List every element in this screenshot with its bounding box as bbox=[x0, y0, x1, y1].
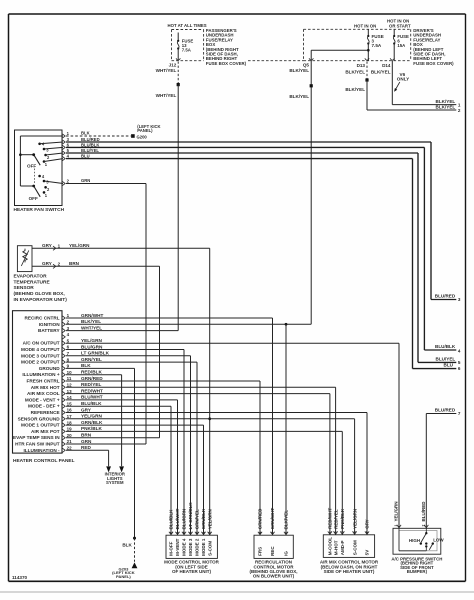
driver underdash fuse/relay box (dashed) bbox=[304, 29, 411, 60]
svg-text:BLU/YEL: BLU/YEL bbox=[81, 148, 99, 153]
wire BLK/YEL from Q5 to heater control panel pin 2 bbox=[289, 50, 312, 324]
evaporator sensor caption bbox=[14, 274, 68, 303]
svg-text:WHT/YEL: WHT/YEL bbox=[81, 325, 102, 330]
wire: panel pin 5 YEL/GRN (node A/C ON OUTPUT) bbox=[23, 338, 399, 528]
svg-text:FUSE BOX COVER): FUSE BOX COVER) bbox=[413, 61, 454, 66]
svg-text:4: 4 bbox=[258, 532, 262, 534]
svg-text:GRN/YEL: GRN/YEL bbox=[81, 357, 102, 362]
mode motor pin M-VENT (BLU/WHT) bbox=[175, 508, 180, 556]
svg-text:PANEL): PANEL) bbox=[116, 574, 131, 579]
svg-text:BLK: BLK bbox=[81, 131, 90, 136]
svg-text:IN EVAPORATOR UNIT): IN EVAPORATOR UNIT) bbox=[14, 297, 68, 303]
svg-text:BLU/BLK: BLU/BLK bbox=[81, 401, 102, 406]
svg-text:3: 3 bbox=[208, 532, 212, 534]
svg-text:RED/WHT: RED/WHT bbox=[81, 388, 103, 393]
svg-text:22: 22 bbox=[67, 446, 73, 451]
recirculation control motor caption bbox=[249, 560, 297, 579]
wire: panel pin 2 BLK/YEL (node IGNITION) bbox=[39, 319, 311, 535]
svg-text:GRN/YEL: GRN/YEL bbox=[195, 509, 200, 529]
svg-text:ON BLOWER UNIT): ON BLOWER UNIT) bbox=[253, 574, 295, 579]
svg-text:BLK/YEL: BLK/YEL bbox=[284, 510, 289, 530]
svg-text:YEL/GRN: YEL/GRN bbox=[81, 338, 102, 343]
interior lights system arrows caption bbox=[105, 472, 125, 485]
a/c pressure switch pin 2 BLU/RED entry bbox=[421, 501, 429, 528]
node: S-COM junction on row 17 bbox=[208, 417, 211, 420]
wire: panel pin 6 BLU/GRN (node MODE 4 OUTPUT) bbox=[21, 344, 184, 535]
svg-text:MODE 4 OUTPUT: MODE 4 OUTPUT bbox=[21, 347, 60, 352]
connector D13 bbox=[357, 58, 370, 68]
svg-text:G200: G200 bbox=[137, 134, 148, 139]
svg-text:18: 18 bbox=[67, 420, 73, 425]
svg-text:21: 21 bbox=[67, 439, 73, 444]
svg-text:ILLUMINATION +: ILLUMINATION + bbox=[22, 372, 60, 377]
svg-text:MODE - DEF +: MODE - DEF + bbox=[28, 404, 60, 409]
fuse 3 7.5A bbox=[367, 29, 384, 60]
wire: panel pin 12 RED/YEL (node AIR MIX HOT) bbox=[31, 382, 336, 535]
mode motor pin M-OFF (BLU/BLK) bbox=[169, 509, 174, 556]
fan switch upper deck wiper bbox=[27, 153, 40, 168]
svg-text:BLU/BLK: BLU/BLK bbox=[81, 142, 99, 147]
svg-text:4: 4 bbox=[202, 532, 206, 534]
label HOT IN ON bbox=[354, 23, 376, 28]
fan switch pin 1 BLK wire to ground G200 (dashed) bbox=[20, 131, 130, 138]
svg-text:BLK: BLK bbox=[81, 363, 91, 368]
fan switch gang link (dashed) bbox=[34, 169, 36, 185]
svg-text:YEL/GRN: YEL/GRN bbox=[352, 509, 357, 529]
wire: panel pin 10 RED/BLK (node ILLUMINATION +) bbox=[22, 370, 124, 473]
connector D14 bbox=[382, 58, 394, 68]
wire BLU fan switch pin 4 to right edge pin 6 bbox=[44, 154, 461, 372]
air mix motor pin 5V (GRY) bbox=[365, 519, 370, 555]
wire: panel pin 3 WHT/YEL (node BATTERY) bbox=[38, 325, 178, 333]
svg-text:HEATER FAN SWITCH: HEATER FAN SWITCH bbox=[14, 207, 65, 213]
svg-text:2: 2 bbox=[334, 531, 338, 533]
driver fuse box caption bbox=[413, 28, 454, 66]
wire: panel pin 19 PNK/BLK (node AIR MIX POT) bbox=[31, 426, 342, 535]
svg-text:19: 19 bbox=[67, 427, 73, 432]
svg-text:5: 5 bbox=[195, 532, 199, 534]
svg-text:BLU/RED: BLU/RED bbox=[435, 407, 456, 412]
wire: panel pin 21 GRN (node HTR FAN SW INPUT) bbox=[15, 439, 146, 447]
svg-text:2: 2 bbox=[169, 532, 173, 534]
svg-text:BUMPER): BUMPER) bbox=[407, 569, 428, 574]
svg-text:FRESH CNTRL: FRESH CNTRL bbox=[27, 379, 60, 384]
svg-text:GRY: GRY bbox=[42, 261, 52, 266]
svg-text:GRN/RED: GRN/RED bbox=[81, 376, 103, 381]
svg-text:M-COOL: M-COOL bbox=[328, 537, 333, 555]
svg-text:GROUND: GROUND bbox=[39, 366, 60, 371]
node: fuse 3 branch junction bbox=[367, 49, 370, 52]
svg-text:7: 7 bbox=[271, 532, 275, 534]
wire: panel pin 13 RED/WHT (node AIR MIX COOL) bbox=[27, 388, 330, 534]
wire: panel pin 7 LT GRN/BLK (node MODE 3 OUTPUT) bbox=[21, 351, 190, 536]
svg-text:YEL/GRN: YEL/GRN bbox=[81, 414, 102, 419]
mode control motor box bbox=[166, 535, 217, 558]
wire BLK/YEL from D13 to right edge pin 2 bbox=[345, 62, 461, 113]
wire GRN fan switch pin 2 to heater control panel pin 21 bbox=[44, 178, 146, 444]
mode motor pin MODE 4 (BLU/GRN) bbox=[182, 509, 187, 556]
svg-text:REFERENCE: REFERENCE bbox=[31, 410, 60, 415]
wire BLU/RED a/c pressure switch pin 2 to right edge pin 7 bbox=[426, 407, 461, 528]
svg-text:BLK/YEL: BLK/YEL bbox=[289, 94, 309, 99]
svg-text:GRN/RED: GRN/RED bbox=[258, 508, 263, 530]
wire: panel pin 15 BLU/BLK (node MODE - DEF +) bbox=[28, 401, 171, 535]
svg-text:RECIRC CNTRL: RECIRC CNTRL bbox=[24, 316, 59, 321]
svg-text:7: 7 bbox=[182, 532, 186, 534]
svg-text:4: 4 bbox=[458, 348, 461, 353]
svg-text:D13: D13 bbox=[357, 63, 366, 68]
svg-text:MODE - VENT +: MODE - VENT + bbox=[25, 397, 60, 402]
svg-text:TEMPERATURE: TEMPERATURE bbox=[14, 279, 51, 285]
ground G200 bbox=[131, 124, 160, 140]
svg-text:1: 1 bbox=[176, 532, 180, 534]
svg-text:BLU/GRN: BLU/GRN bbox=[182, 509, 187, 530]
note V6 ONLY with arrow to D14 wire bbox=[394, 72, 409, 92]
svg-text:BLU/WHT: BLU/WHT bbox=[175, 508, 180, 529]
passenger underdash fuse/relay box (dashed) bbox=[172, 30, 304, 61]
svg-text:11: 11 bbox=[67, 376, 72, 381]
svg-text:A/C ON OUTPUT: A/C ON OUTPUT bbox=[23, 341, 60, 346]
svg-text:BLK/YEL: BLK/YEL bbox=[289, 68, 309, 73]
svg-text:MODE 3: MODE 3 bbox=[188, 538, 193, 556]
svg-text:BLU/BLK: BLU/BLK bbox=[435, 344, 456, 349]
mode motor pin S-COM (YEL/GRN) bbox=[207, 509, 212, 556]
svg-text:ONLY: ONLY bbox=[397, 77, 409, 82]
mode motor pin MODE 2 (GRN/YEL) bbox=[195, 509, 200, 556]
svg-text:MODE 3 OUTPUT: MODE 3 OUTPUT bbox=[21, 353, 60, 358]
wire: panel pin 16 GRY (node REFERENCE) bbox=[31, 407, 367, 535]
svg-text:SIDE OF HEATER UNIT): SIDE OF HEATER UNIT) bbox=[324, 569, 375, 574]
svg-text:D14: D14 bbox=[382, 63, 391, 68]
svg-text:7.5A: 7.5A bbox=[372, 43, 382, 48]
heater control panel caption bbox=[13, 458, 75, 464]
svg-text:RED/YEL: RED/YEL bbox=[81, 382, 101, 387]
svg-text:LOW: LOW bbox=[433, 538, 444, 543]
svg-text:HTR FAN SW INPUT: HTR FAN SW INPUT bbox=[15, 442, 60, 447]
svg-text:BLK/YEL: BLK/YEL bbox=[345, 87, 365, 92]
svg-text:BRN: BRN bbox=[69, 261, 80, 266]
svg-text:RED/WHT: RED/WHT bbox=[328, 508, 333, 529]
svg-text:AIR MIX COOL: AIR MIX COOL bbox=[27, 391, 60, 396]
fuse 13 7.5A bbox=[177, 33, 193, 61]
svg-text:5V: 5V bbox=[365, 550, 370, 556]
connector J12 bbox=[169, 58, 181, 67]
wire: panel pin 11 GRN/RED (node FRESH CNTRL) bbox=[27, 376, 260, 535]
svg-text:PNK/BLK: PNK/BLK bbox=[340, 508, 345, 529]
mode motor pin MODE 3 (LT GRN/BLK) bbox=[188, 502, 193, 556]
wire: panel pin 9 BLK (node GROUND) bbox=[39, 363, 135, 538]
svg-text:10: 10 bbox=[67, 370, 73, 375]
svg-text:S-COM: S-COM bbox=[207, 541, 212, 556]
svg-text:OFF: OFF bbox=[29, 196, 38, 201]
svg-text:BLU/WHT: BLU/WHT bbox=[81, 395, 103, 400]
svg-text:M-OFF: M-OFF bbox=[169, 541, 174, 555]
wire: panel pin 17 YEL/GRN (node SENSOR GROUND) bbox=[18, 414, 355, 535]
passenger fuse box caption bbox=[206, 28, 247, 66]
svg-text:2: 2 bbox=[458, 108, 461, 113]
svg-text:BRN: BRN bbox=[81, 433, 92, 438]
svg-text:EVAP TEMP SENS IN: EVAP TEMP SENS IN bbox=[13, 435, 60, 440]
svg-text:RED/BLK: RED/BLK bbox=[81, 370, 102, 375]
svg-text:GRY: GRY bbox=[365, 519, 370, 529]
svg-text:MODE 1 OUTPUT: MODE 1 OUTPUT bbox=[21, 423, 60, 428]
mode control motor caption bbox=[164, 560, 220, 574]
heater control panel box bbox=[13, 311, 63, 453]
svg-text:7: 7 bbox=[458, 411, 461, 416]
heater control panel pin 4 (unused) bbox=[62, 332, 69, 339]
fuse 6 15A bbox=[393, 29, 409, 60]
svg-text:15: 15 bbox=[67, 401, 73, 406]
wire: panel pin 22 RED (node ILLUMINATION -) bbox=[23, 445, 111, 472]
svg-text:OF HEATER UNIT): OF HEATER UNIT) bbox=[172, 569, 211, 574]
heater fan switch caption bbox=[14, 207, 65, 213]
recirculation control motor box bbox=[254, 535, 293, 558]
svg-text:7.5A: 7.5A bbox=[182, 48, 191, 53]
svg-text:WHT/YEL: WHT/YEL bbox=[156, 68, 177, 73]
svg-text:AIR MIX HOT: AIR MIX HOT bbox=[31, 385, 60, 390]
svg-text:BLK/YEL: BLK/YEL bbox=[345, 70, 365, 75]
wire YEL/GRN evap sensor pin 1 to S-COM vertical bbox=[32, 243, 210, 535]
svg-text:BATTERY: BATTERY bbox=[38, 328, 60, 333]
svg-text:MODE 2 OUTPUT: MODE 2 OUTPUT bbox=[21, 360, 60, 365]
svg-text:LT GRN/BLK: LT GRN/BLK bbox=[81, 351, 110, 356]
svg-text:BLK/YEL: BLK/YEL bbox=[436, 99, 456, 104]
svg-text:BLU/RED: BLU/RED bbox=[421, 501, 426, 522]
fan switch upper contacts 4 3 2 1 bbox=[38, 142, 50, 168]
recirculation motor pin REC (GRN/WHT) bbox=[270, 508, 275, 556]
svg-text:20: 20 bbox=[67, 433, 73, 438]
wire: panel pin 20 BRN (node EVAP TEMP SENS IN) bbox=[13, 433, 160, 441]
svg-text:BLU/YEL: BLU/YEL bbox=[436, 356, 456, 361]
wire BLU/BLK fan switch pin 6 to right edge pin 4 bbox=[44, 142, 461, 353]
wire GRY/BRN evap sensor pin 2 to heater control panel pin 20 bbox=[32, 261, 160, 438]
svg-text:BLU: BLU bbox=[444, 363, 454, 368]
heater fan switch box bbox=[15, 130, 63, 206]
svg-text:YEL/GRN: YEL/GRN bbox=[207, 509, 212, 529]
svg-text:1: 1 bbox=[328, 531, 332, 533]
svg-text:3: 3 bbox=[341, 531, 345, 533]
svg-text:HOT AT ALL TIMES: HOT AT ALL TIMES bbox=[168, 23, 207, 28]
svg-text:AMD-P: AMD-P bbox=[340, 541, 345, 556]
svg-text:IG: IG bbox=[284, 551, 289, 556]
svg-text:BLU/RED: BLU/RED bbox=[435, 293, 456, 298]
svg-text:FUSE BOX COVER): FUSE BOX COVER) bbox=[206, 61, 247, 66]
svg-text:HEATER CONTROL PANEL: HEATER CONTROL PANEL bbox=[13, 458, 75, 464]
svg-text:EVAPORATOR: EVAPORATOR bbox=[14, 274, 48, 280]
svg-text:1: 1 bbox=[284, 532, 288, 534]
svg-text:S-COM: S-COM bbox=[352, 540, 357, 555]
svg-text:GRN/BLK: GRN/BLK bbox=[201, 508, 206, 529]
svg-text:GRY: GRY bbox=[81, 407, 92, 412]
wire BLU/YEL fan switch pin 5 to right edge pin 5 bbox=[46, 148, 461, 365]
svg-text:1: 1 bbox=[458, 102, 461, 107]
svg-text:GRY: GRY bbox=[42, 243, 52, 248]
page footer gray rule bbox=[0, 591, 474, 593]
svg-text:PANEL): PANEL) bbox=[137, 128, 153, 133]
svg-text:RED: RED bbox=[81, 445, 92, 450]
svg-text:LT GRN/BLK: LT GRN/BLK bbox=[188, 502, 193, 530]
air mix motor pin M-COOL (RED/WHT) bbox=[328, 508, 333, 556]
air mix control motor caption bbox=[320, 560, 379, 574]
svg-text:RED/YEL: RED/YEL bbox=[333, 509, 338, 529]
fan switch common bus BLK bbox=[19, 136, 34, 186]
mode motor pin MODE 1 (GRN/BLK) bbox=[201, 508, 206, 556]
svg-text:12: 12 bbox=[67, 383, 73, 388]
svg-text:BLK/YEL: BLK/YEL bbox=[371, 70, 391, 75]
svg-text:HIGH: HIGH bbox=[409, 538, 420, 543]
svg-text:YEL/GRN: YEL/GRN bbox=[69, 243, 90, 248]
svg-text:GRN/WHT: GRN/WHT bbox=[270, 508, 275, 530]
svg-text:17: 17 bbox=[67, 414, 73, 419]
svg-text:OR START: OR START bbox=[389, 23, 411, 28]
svg-text:5: 5 bbox=[458, 360, 461, 365]
air mix motor pin S-COM (YEL/GRN) bbox=[352, 509, 357, 555]
svg-text:13: 13 bbox=[67, 389, 73, 394]
label HOT AT ALL TIMES bbox=[168, 23, 207, 28]
recirculation motor pin IG (BLK/YEL) bbox=[284, 510, 289, 556]
svg-text:15A: 15A bbox=[397, 43, 405, 48]
svg-text:4: 4 bbox=[353, 531, 357, 533]
wire BLK/YEL from D14 to right edge pin 1 bbox=[371, 61, 461, 108]
evaporator temperature sensor box bbox=[17, 246, 32, 272]
diagram id 114370 bbox=[12, 575, 28, 580]
svg-text:(BEHIND GLOVE BOX,: (BEHIND GLOVE BOX, bbox=[14, 291, 66, 297]
svg-text:14: 14 bbox=[67, 395, 73, 400]
svg-text:MODE 1: MODE 1 bbox=[201, 538, 206, 556]
recirculation motor pin FRS (GRN/RED) bbox=[258, 508, 263, 556]
a/c pressure switch caption bbox=[391, 556, 442, 574]
svg-text:IGNITION: IGNITION bbox=[39, 322, 60, 327]
svg-text:GRN/WHT: GRN/WHT bbox=[81, 313, 104, 318]
svg-text:BLU/BLK: BLU/BLK bbox=[169, 509, 174, 529]
fan switch lower deck wiper bbox=[29, 185, 41, 201]
wire: panel pin 1 GRN/WHT (node RECIRC CNTRL) bbox=[24, 313, 272, 535]
svg-text:WHT/YEL: WHT/YEL bbox=[156, 93, 177, 98]
fan switch lower contacts 4 3 2 1 bbox=[38, 174, 50, 198]
label HOT IN ON OR START bbox=[387, 19, 411, 29]
svg-text:REC: REC bbox=[270, 546, 275, 556]
svg-text:ILLUMINATION -: ILLUMINATION - bbox=[23, 448, 60, 453]
svg-text:BLU/GRN: BLU/GRN bbox=[81, 344, 103, 349]
svg-text:3: 3 bbox=[458, 297, 461, 302]
svg-text:BLK/YEL: BLK/YEL bbox=[81, 319, 101, 324]
wire: panel pin 8 GRN/YEL (node MODE 2 OUTPUT) bbox=[21, 357, 197, 535]
a/c pressure switch box bbox=[393, 528, 441, 554]
svg-text:FRS: FRS bbox=[258, 547, 263, 556]
svg-text:SENSOR: SENSOR bbox=[14, 285, 35, 291]
air mix motor pin AMD-P (PNK/BLK) bbox=[340, 508, 345, 555]
svg-text:GRN: GRN bbox=[81, 178, 90, 183]
a/c pressure switch internals HIGH and LOW contacts bbox=[399, 528, 444, 551]
svg-text:6: 6 bbox=[458, 366, 461, 371]
a/c pressure switch pin 1 YEL/GRN entry bbox=[394, 501, 402, 527]
air mix motor pin M-HOT (RED/YEL) bbox=[333, 509, 338, 555]
svg-text:M-HOT: M-HOT bbox=[333, 540, 338, 555]
svg-text:7: 7 bbox=[365, 531, 369, 533]
svg-text:PNK/BLK: PNK/BLK bbox=[81, 426, 102, 431]
wire: panel pin 14 BLU/WHT (node MODE - VENT +) bbox=[25, 395, 178, 536]
svg-text:GRN/BLK: GRN/BLK bbox=[81, 420, 103, 425]
svg-text:BLK: BLK bbox=[122, 543, 132, 548]
ground G203 bbox=[112, 562, 137, 579]
svg-text:SENSOR GROUND: SENSOR GROUND bbox=[18, 416, 61, 421]
svg-text:GRN: GRN bbox=[81, 439, 92, 444]
svg-text:6: 6 bbox=[189, 532, 193, 534]
connector Q5 bbox=[303, 58, 314, 67]
svg-text:MODE 2: MODE 2 bbox=[195, 538, 200, 556]
svg-text:AIR MIX POT: AIR MIX POT bbox=[31, 429, 60, 434]
svg-text:YEL/GRN: YEL/GRN bbox=[394, 501, 399, 521]
svg-text:M-VENT: M-VENT bbox=[175, 538, 180, 555]
wire from fuse 3 to connector Q5 bbox=[311, 49, 368, 51]
svg-text:114370: 114370 bbox=[12, 575, 28, 580]
svg-text:HOT IN ON: HOT IN ON bbox=[354, 23, 376, 28]
svg-text:16: 16 bbox=[67, 408, 73, 413]
svg-text:BLK/YEL: BLK/YEL bbox=[436, 104, 456, 109]
air mix control motor box bbox=[323, 535, 374, 558]
svg-text:BLU/RED: BLU/RED bbox=[81, 137, 100, 142]
ground G203 wire tail (dashed) and connector dot bbox=[122, 537, 136, 562]
wire BLU/RED fan switch pin 3 to right edge pin 3 bbox=[40, 137, 461, 302]
thermistor symbol bbox=[21, 249, 29, 266]
wire: panel pin 18 GRN/BLK (node MODE 1 OUTPUT) bbox=[21, 420, 203, 535]
svg-text:OFF: OFF bbox=[27, 164, 36, 169]
svg-text:SYSTEM: SYSTEM bbox=[106, 480, 124, 485]
svg-text:MODE 4: MODE 4 bbox=[182, 538, 187, 556]
wire WHT/YEL from J12 to heater control panel pin 3 bbox=[156, 62, 180, 331]
svg-text:BLU: BLU bbox=[81, 154, 90, 159]
